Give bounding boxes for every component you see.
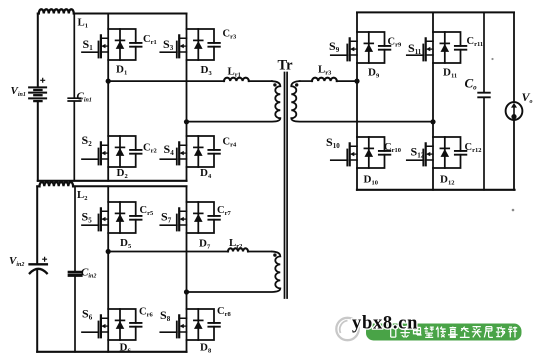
wire	[337, 80, 357, 82]
transistor S9 with diode D9 and capacitor Cr9	[331, 32, 391, 63]
wire	[73, 101, 75, 181]
node S9S10	[354, 79, 359, 84]
watermark logo circle	[336, 318, 358, 340]
transformer Tr primary 1	[187, 81, 281, 122]
wire	[108, 80, 224, 82]
node dot primary1 polarity	[273, 83, 276, 86]
svg-text:Tr: Tr	[278, 58, 294, 74]
wire	[36, 271, 38, 352]
wire	[107, 186, 109, 351]
wire	[37, 351, 186, 353]
capacitor Co	[478, 93, 490, 98]
source Vo	[506, 102, 523, 120]
wire	[186, 186, 188, 351]
wire	[300, 80, 312, 82]
source Vin2	[30, 263, 47, 265]
transistor S1 with diode D1 and capacitor Cr1	[82, 29, 142, 60]
wire	[513, 12, 515, 102]
wire	[38, 180, 187, 182]
inductor Lr3	[312, 78, 337, 81]
transistor S6 with diode D6 and capacitor Cr6	[82, 309, 142, 340]
inductor L2	[40, 182, 74, 186]
transistor S5 with diode D5 and capacitor Cr5	[82, 202, 142, 233]
watermark green banner	[366, 324, 522, 341]
wire	[483, 98, 485, 190]
capacitor Cin2	[69, 272, 81, 275]
capacitor Cin1	[68, 98, 81, 101]
wire	[186, 14, 188, 181]
inductor Lr2	[228, 248, 248, 251]
node S3S4	[184, 119, 189, 124]
transistor S7 with diode D7 and capacitor Cr7	[160, 202, 220, 233]
wire	[356, 12, 358, 189]
transformer Tr primary 2	[187, 252, 281, 293]
transistor S11 with diode D11 and capacitor Cr11	[407, 32, 467, 63]
node S7S8	[184, 289, 189, 294]
wire	[432, 12, 434, 189]
wire	[38, 13, 39, 15]
wire	[107, 14, 109, 181]
wire	[513, 120, 515, 190]
wire	[74, 13, 187, 15]
wire	[357, 11, 514, 13]
node dot secondary polarity	[295, 83, 298, 86]
speck	[512, 209, 515, 212]
transformer secondary	[291, 81, 433, 122]
node S1S2	[106, 79, 111, 84]
node dot primary2 polarity	[273, 253, 276, 256]
transistor S3 with diode D3 and capacitor Cr3	[160, 29, 220, 60]
wire	[357, 189, 515, 191]
wire	[248, 251, 272, 253]
wire	[37, 102, 39, 181]
wire	[74, 186, 76, 271]
wire	[483, 12, 485, 92]
inductor L1	[39, 9, 74, 13]
transformer core	[285, 73, 288, 299]
transistor S10 with diode D10 and capacitor Cr10	[331, 137, 391, 168]
svg-text:ybx8.cn: ybx8.cn	[352, 314, 418, 334]
wire	[36, 186, 38, 263]
transistor S12 with diode D12 and capacitor Cr12	[407, 137, 467, 168]
inductor Lr1	[224, 78, 249, 81]
node S5S6	[106, 249, 111, 254]
transistor S8 with diode D8 and capacitor Cr8	[160, 309, 220, 340]
wire	[73, 14, 75, 98]
battery Vin1	[29, 87, 46, 101]
transistor S2 with diode D2 and capacitor Cr2	[82, 136, 142, 167]
wire	[249, 80, 272, 82]
node S11S12	[430, 119, 435, 124]
wire	[37, 185, 39, 187]
wire	[108, 251, 228, 253]
transistor S4 with diode D4 and capacitor Cr4	[160, 136, 220, 167]
wire	[37, 14, 39, 87]
watermark banner text	[389, 327, 518, 338]
wire	[74, 277, 76, 352]
wire	[73, 185, 186, 187]
